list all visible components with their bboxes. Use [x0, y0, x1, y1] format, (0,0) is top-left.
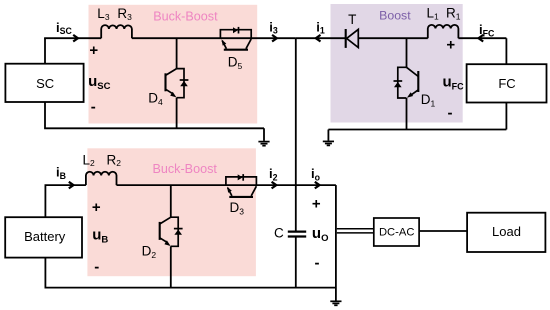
svg-text:Load: Load — [492, 224, 521, 239]
wire bus center node to diode T — [296, 37, 346, 39]
arrow io — [315, 182, 320, 189]
wire bottom bus (battery corner to inductor L2) — [45, 184, 86, 186]
wire battery bottom rail — [45, 258, 336, 288]
ground (SC loop) — [258, 142, 269, 146]
wire double-line to DC-AC — [337, 229, 374, 233]
wire capacitor to bottom rail — [295, 238, 297, 288]
transistor D2 (IGBT with freewheel diode) — [160, 217, 183, 246]
boost region (FC converter) background — [331, 4, 463, 123]
inductor L1 — [428, 25, 459, 38]
svg-text:-: - — [91, 99, 96, 116]
transistor D2 collector stub — [170, 185, 172, 288]
inductor L2 — [86, 172, 117, 185]
svg-text:DC-AC: DC-AC — [379, 227, 414, 239]
buck-boost region 2 (battery converter) background — [87, 148, 256, 276]
wire right branch (io corner down to ground) — [335, 185, 337, 301]
diode T — [346, 29, 359, 48]
svg-text:Boost: Boost — [379, 8, 411, 22]
svg-text:+: + — [89, 42, 98, 59]
Load box — [467, 213, 545, 252]
arrow i3 — [272, 35, 277, 42]
transistor D4 collector stub — [176, 38, 178, 68]
wire FC bottom rail — [328, 103, 506, 141]
wire bottom bus (inductor L2 to right corner) — [117, 184, 336, 186]
svg-text:+: + — [92, 199, 101, 216]
wire center bus (top node down to capacitor) — [295, 38, 297, 230]
Battery box — [5, 217, 82, 257]
transistor D3 (IGBT with freewheel diode, horizontal) — [226, 174, 257, 197]
wire diode T to inductor L1 — [358, 37, 428, 39]
wire L1 to FC top corner — [458, 38, 506, 64]
wire DC-AC to Load — [419, 230, 467, 232]
svg-text:SC: SC — [36, 76, 54, 91]
svg-text:Buck-Boost: Buck-Boost — [152, 162, 217, 176]
svg-text:T: T — [348, 12, 356, 27]
wire battery top to bus — [44, 185, 46, 217]
arrow i2 — [272, 182, 277, 189]
svg-text:Buck-Boost: Buck-Boost — [153, 9, 218, 23]
transistor D1 (IGBT with freewheel diode, mirrored) — [394, 67, 419, 98]
svg-text:-: - — [448, 105, 453, 122]
arrow iFC — [479, 35, 484, 42]
inductor L3 — [101, 25, 132, 38]
FC box — [467, 64, 547, 102]
svg-text:FC: FC — [498, 76, 515, 91]
transistor D4 (IGBT with freewheel diode) — [166, 69, 189, 98]
svg-text:Battery: Battery — [24, 229, 66, 244]
wire top bus (SC corner to inductor L3) — [44, 37, 101, 39]
DC-AC box — [374, 218, 419, 246]
svg-text:-: - — [315, 255, 320, 272]
wire SC top to bus — [44, 38, 46, 64]
svg-text:+: + — [446, 36, 455, 53]
transistor D5 (IGBT with freewheel diode, horizontal) — [220, 27, 251, 50]
arrow iSC — [73, 35, 78, 42]
ground (boost) — [323, 141, 334, 145]
arrow i1 — [316, 35, 321, 42]
capacitor C — [288, 232, 306, 237]
svg-text:+: + — [312, 195, 321, 212]
transistor D1 collector stub — [406, 38, 408, 67]
wire SC bottom rail — [44, 102, 264, 141]
wire D1 emitter down — [406, 98, 408, 130]
arrow iB — [69, 182, 74, 189]
svg-text:-: - — [94, 259, 99, 276]
buck-boost region 1 (SC converter) background — [89, 5, 258, 124]
svg-text:C: C — [274, 225, 284, 240]
ground (output) — [330, 301, 341, 305]
wire top bus (inductor L3 to center node) — [132, 37, 296, 39]
wire D4 emitter to bottom rail — [176, 98, 178, 129]
SC box — [5, 64, 83, 102]
